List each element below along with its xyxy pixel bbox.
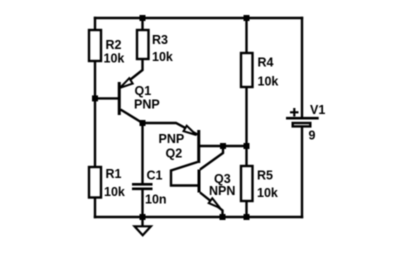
ground (135, 217, 151, 235)
transistor Q2 (PNP) (143, 123, 247, 186)
wire Q3 emitter to bottom rail (200, 193, 223, 218)
V1 plus sign (290, 108, 299, 117)
node C1 ground junction (140, 214, 146, 220)
svg-text:R3: R3 (152, 33, 168, 47)
svg-text:10k: 10k (152, 50, 173, 64)
wire right column bottom (from battery) (301, 128, 303, 217)
svg-text:9: 9 (309, 129, 316, 143)
wire bottom rail (95, 216, 302, 218)
wire R3 column (141, 18, 143, 30)
svg-text:NPN: NPN (209, 184, 235, 198)
svg-text:10n: 10n (145, 193, 167, 207)
node Q2 base / Q3 collector junction (220, 143, 226, 149)
svg-text:10k: 10k (104, 52, 125, 66)
node R4 top junction (244, 15, 250, 21)
Q1 emitter arrowhead (120, 78, 133, 88)
wire left column (94, 18, 96, 217)
Q3 bar (198, 170, 201, 193)
wire Q2 collector to Q3 base (171, 162, 198, 186)
wire Q1 base (95, 97, 118, 99)
wire top rail (95, 17, 302, 19)
Q2 bar (197, 130, 200, 163)
svg-text:PNP: PNP (159, 132, 185, 146)
svg-text:Q2: Q2 (166, 147, 183, 161)
Q1 bar (118, 82, 121, 115)
wire node A to C1 and C1 to bottom rail (141, 123, 143, 217)
svg-text:PNP: PNP (134, 98, 160, 112)
V1 positive plate (286, 117, 319, 120)
node R3 top junction (140, 15, 146, 21)
node Q3 emitter junction (220, 214, 226, 220)
svg-text:C1: C1 (147, 169, 163, 183)
resistor R1 (89, 167, 125, 199)
resistor R2 (89, 30, 124, 66)
V1 negative plate (293, 123, 311, 126)
wire Q2 emitter from node A (143, 123, 198, 135)
Q2 emitter arrowhead (184, 126, 197, 135)
resistor R5 (241, 166, 278, 201)
wire Q1 emitter from R3 (120, 59, 143, 88)
transistor Q1 (PNP) (95, 59, 160, 123)
svg-text:10k: 10k (104, 185, 125, 199)
node Q1 base junction (92, 95, 98, 101)
node A junction (Q1 collector / C1 / Q2 emitter) (140, 120, 146, 126)
svg-text:10k: 10k (258, 75, 279, 89)
wire Q1 collector (121, 110, 143, 124)
wire right column top (to battery) (301, 18, 303, 117)
wire Q2 base to node (200, 145, 247, 147)
svg-text:10k: 10k (257, 186, 278, 200)
battery V1 (286, 103, 325, 143)
svg-text:R4: R4 (258, 56, 274, 70)
node R4-R5 junction (244, 143, 250, 149)
resistor R3 (137, 30, 173, 64)
svg-text:R5: R5 (257, 169, 273, 183)
wire Q3 collector to Q2 base junction (200, 146, 223, 170)
wire R4-R5 column (245, 18, 247, 217)
svg-text:Q1: Q1 (135, 84, 152, 98)
Q3 emitter arrowhead (209, 198, 220, 208)
svg-text:V1: V1 (310, 103, 325, 117)
resistor R4 (241, 53, 278, 89)
svg-text:R1: R1 (106, 167, 122, 181)
capacitor C1 (132, 169, 167, 207)
svg-text:R2: R2 (106, 38, 122, 52)
node R5 bottom junction (244, 214, 250, 220)
transistor Q3 (NPN) (199, 146, 235, 217)
